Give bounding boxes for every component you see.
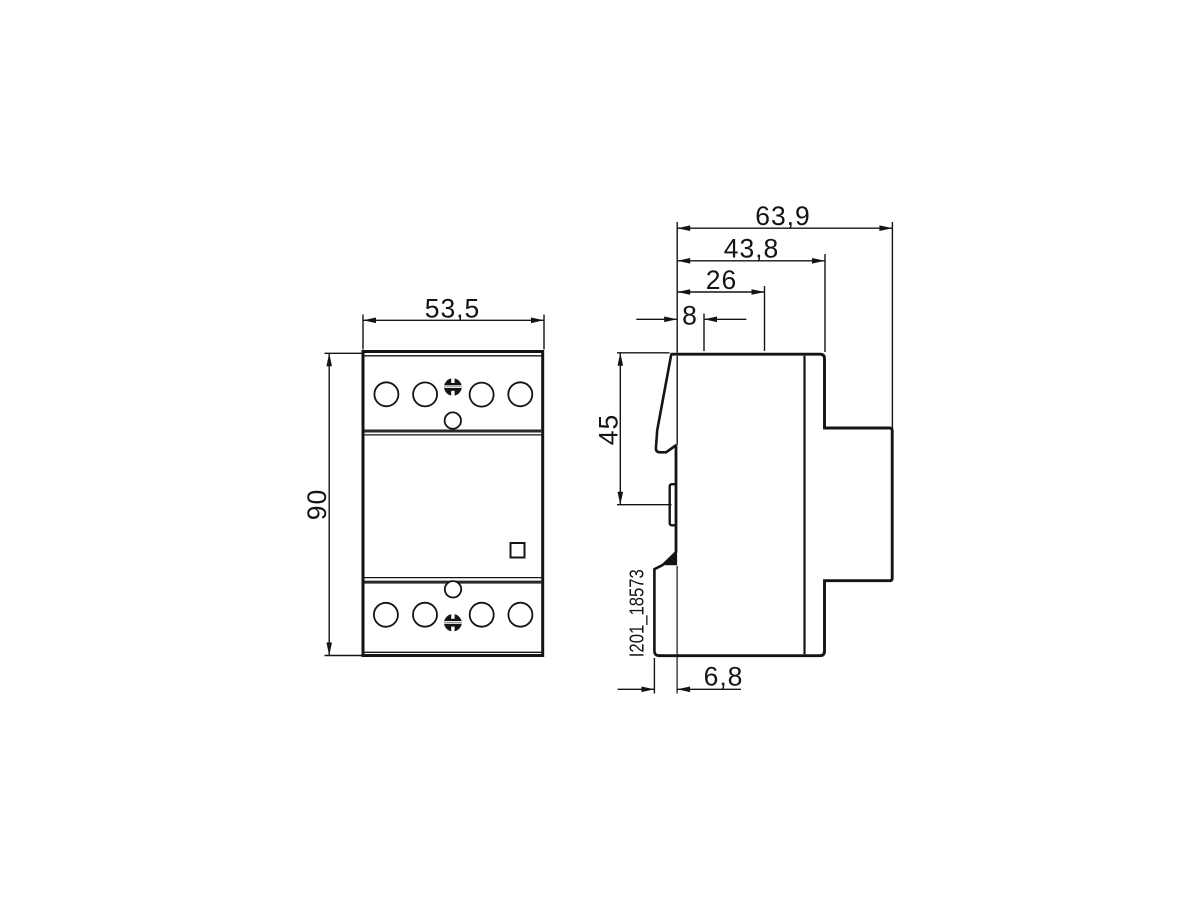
- dimension 53,5 extension line left: [362, 315, 364, 350]
- dimension 8 right leader: [704, 318, 746, 320]
- terminal circle bottom 2: [413, 603, 437, 627]
- dimension 26 extension right: [764, 286, 766, 351]
- svg-text:90: 90: [302, 489, 332, 520]
- dimension 90 line: [328, 353, 330, 655]
- small circle top: [445, 412, 461, 428]
- small circle bottom: [445, 581, 461, 597]
- svg-text:45: 45: [594, 414, 624, 445]
- dimension 90 arrow bottom: [326, 643, 332, 656]
- dimension 6,8 right leader: [677, 688, 741, 690]
- dimension 90 extension line bottom: [325, 655, 363, 657]
- dimension 63,9 extension left (reference): [676, 222, 678, 353]
- dimension 8 arrow left: [664, 317, 677, 323]
- dimension 63,9 arrow right: [879, 225, 892, 231]
- side view clip release notch (filled): [662, 551, 677, 565]
- svg-text:26: 26: [706, 265, 737, 295]
- dimension 63,9 line: [677, 227, 892, 229]
- top strip divider thin: [365, 434, 542, 436]
- dimension 90 arrow top: [326, 353, 332, 366]
- terminal circle bottom 1: [374, 603, 398, 627]
- bottom strip divider thin: [365, 577, 542, 579]
- dimension 43,8 arrow left: [677, 258, 690, 264]
- dimension 90 extension line top: [325, 352, 363, 354]
- svg-text:43,8: 43,8: [724, 234, 780, 264]
- dimension 6,8 arrow right: [677, 687, 690, 693]
- top strip divider thick: [365, 430, 542, 433]
- front view inner bottom line: [365, 651, 542, 653]
- side view inner vertical line: [803, 356, 805, 654]
- indicator square: [511, 543, 525, 558]
- svg-text:6,8: 6,8: [704, 662, 744, 692]
- front view inner top line: [365, 355, 542, 357]
- terminal circle bottom 4: [508, 603, 532, 627]
- dimension 8 extension right: [703, 314, 705, 352]
- dimension 53,5 extension line right: [543, 315, 545, 350]
- dimension 45 extension top: [617, 352, 670, 354]
- dimension 53,5 line: [363, 319, 544, 321]
- dimension 45 extension bottom: [617, 504, 672, 506]
- dimension 45 line: [619, 353, 621, 505]
- screw head bottom: [443, 613, 463, 633]
- side view upper DIN clip front profile: [656, 354, 677, 452]
- dimension 63,9 arrow left: [677, 225, 690, 231]
- terminal circle top 4: [508, 382, 532, 406]
- dimension 6,8 extension left: [653, 658, 655, 694]
- side view DIN rail catch tab: [670, 484, 676, 525]
- front view outline: [363, 352, 543, 656]
- dimension 45 arrow bottom: [618, 492, 624, 505]
- terminal circle top 2: [413, 382, 437, 406]
- dimension 43,8 line: [677, 260, 825, 262]
- terminal circle top 3: [470, 383, 494, 407]
- side view main left edge: [675, 445, 678, 553]
- bottom strip divider thick: [365, 581, 542, 584]
- dimension 26 line: [677, 291, 764, 293]
- dimension 45 arrow top: [618, 353, 624, 366]
- dimension 43,8 extension right: [824, 254, 826, 352]
- dimension 53,5 arrow right: [531, 318, 544, 324]
- dimension 6,8 left leader: [618, 688, 655, 690]
- dimension 8 arrow right: [704, 317, 717, 323]
- svg-text:8: 8: [682, 300, 697, 330]
- dimension 6,8 extension right: [676, 566, 678, 694]
- dimension 43,8 arrow right: [812, 258, 825, 264]
- side view lower clip slant: [654, 565, 664, 656]
- dimension 6,8 arrow left: [641, 687, 654, 693]
- side view top edge and right profile: [658, 354, 892, 656]
- dimension 8 left leader: [636, 318, 677, 320]
- dimension 26 arrow left: [677, 289, 690, 295]
- svg-text:63,9: 63,9: [755, 201, 811, 231]
- screw head top: [443, 377, 463, 397]
- terminal circle top 1: [374, 382, 398, 406]
- svg-text:53,5: 53,5: [425, 293, 481, 323]
- dimension 53,5 arrow left: [363, 318, 376, 324]
- dimension 26 arrow right: [752, 289, 765, 295]
- svg-text:I201_18573: I201_18573: [627, 569, 649, 657]
- dimension 63,9 extension right: [891, 222, 893, 428]
- side view clip slot inner line: [676, 356, 678, 445]
- terminal circle bottom 3: [470, 603, 494, 627]
